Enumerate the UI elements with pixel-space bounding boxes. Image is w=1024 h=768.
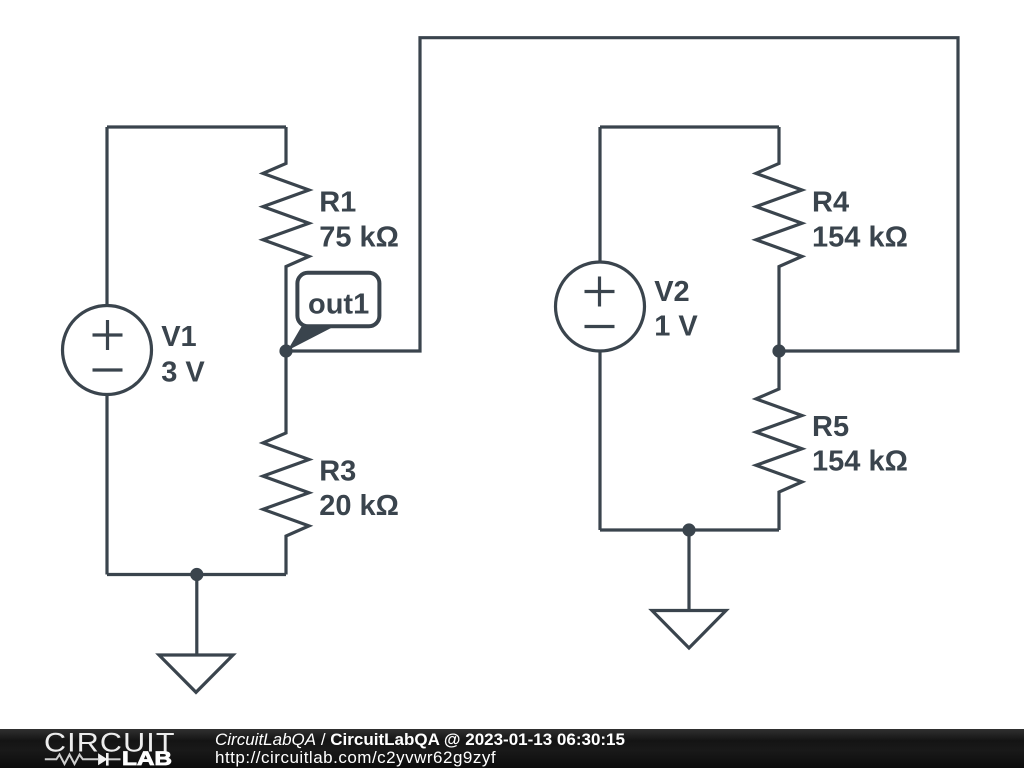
ground symbol right <box>652 530 726 648</box>
junction node right ground <box>682 523 695 536</box>
svg-text:20 kΩ: 20 kΩ <box>319 490 399 522</box>
wire: V2 top lead <box>598 127 601 262</box>
footer bar <box>0 729 1024 768</box>
svg-text:out1: out1 <box>308 289 369 321</box>
junction node at out1 (R1/R3/wire) <box>279 344 292 357</box>
svg-text:R1: R1 <box>319 187 356 219</box>
junction node left ground <box>190 568 203 581</box>
wire: V1 top lead <box>105 127 108 306</box>
wire: out1 node to top loop (right of out1, up, across top, down right side, to R4/R5 node) <box>286 38 958 351</box>
ground symbol left <box>159 575 233 693</box>
label R4 value: R4 / 154 kΩ <box>812 187 908 254</box>
resistor R5 <box>756 351 802 530</box>
resistor R4 <box>756 127 802 351</box>
voltage source V1 <box>63 306 152 395</box>
resistor R1 <box>263 127 309 351</box>
wire: V1 bottom lead <box>105 395 108 575</box>
label R1 value: R1 / 75 kΩ <box>319 187 399 254</box>
label R5 value: R5 / 154 kΩ <box>812 411 908 478</box>
svg-text:V1: V1 <box>161 321 196 353</box>
svg-text:R5: R5 <box>812 411 849 443</box>
wire: right circuit bottom (V2 bottom to R5 bottom) <box>600 528 779 531</box>
svg-text:1 V: 1 V <box>654 311 698 343</box>
resistor R3 <box>263 351 309 575</box>
voltage source V2 <box>556 262 645 351</box>
svg-text:R3: R3 <box>319 455 356 487</box>
label R3 value: R3 / 20 kΩ <box>319 455 399 522</box>
wire: V2 bottom lead <box>598 352 601 531</box>
junction node at R4/R5 (right) <box>772 344 785 357</box>
wire: left circuit top (V1 top to R1 top) <box>107 125 286 128</box>
svg-text:R4: R4 <box>812 187 849 219</box>
wire: right circuit top (V2 top to R4 top) <box>600 125 779 128</box>
CircuitLab logo <box>0 729 190 768</box>
svg-text:75 kΩ: 75 kΩ <box>319 222 399 254</box>
svg-text:LAB: LAB <box>122 749 172 768</box>
wire: left circuit bottom (V1 bottom to R3 bottom) <box>107 573 286 576</box>
svg-text:V2: V2 <box>654 276 689 308</box>
svg-text:154 kΩ: 154 kΩ <box>812 446 908 478</box>
svg-text:3 V: 3 V <box>161 357 205 389</box>
svg-text:154 kΩ: 154 kΩ <box>812 221 908 253</box>
footer text <box>215 731 625 748</box>
label V1 value: V1 / 3 V <box>161 321 205 389</box>
node out1 callout bubble <box>288 273 380 351</box>
label V2 value: V2 / 1 V <box>654 276 698 342</box>
